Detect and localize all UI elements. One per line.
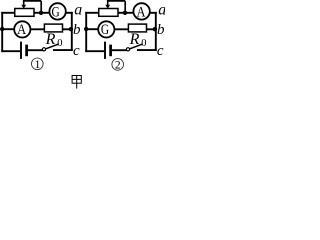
node junction dot left middle (circuit 2) bbox=[84, 27, 88, 31]
wire left vertical (circuit 2) bbox=[85, 12, 87, 52]
svg-text:G: G bbox=[52, 4, 60, 20]
ammeter A1 (circuit 1) bbox=[14, 21, 30, 37]
node b junction dot (circuit 2) bbox=[153, 27, 157, 31]
wire slider jumper horizontal (circuit 2) bbox=[107, 0, 125, 2]
svg-text:c: c bbox=[157, 43, 164, 59]
switch pivot (circuit 2) bbox=[126, 48, 129, 51]
svg-text:a: a bbox=[74, 2, 82, 19]
wire box to G (circuit 1) bbox=[34, 12, 49, 14]
wire bottom-left horizontal (circuit 2) bbox=[85, 50, 104, 52]
resistor R0 body (circuit 2) bbox=[128, 24, 146, 32]
wire slider jumper horizontal (circuit 1) bbox=[23, 0, 41, 2]
label circled 1 bbox=[32, 58, 44, 71]
svg-text:A: A bbox=[137, 4, 146, 20]
wire bottom-right horizontal (circuit 2) bbox=[137, 49, 157, 51]
galvanometer G2 (circuit 2) bbox=[98, 21, 114, 37]
svg-text:c: c bbox=[73, 43, 80, 59]
svg-text:2: 2 bbox=[115, 59, 121, 71]
galvanometer G1 (circuit 1) bbox=[49, 3, 65, 19]
rheostat R body (circuit 2) bbox=[99, 9, 118, 17]
wire bottom-right horizontal (circuit 1) bbox=[53, 49, 73, 51]
battery long plate (circuit 2) bbox=[104, 42, 106, 59]
node junction dot top (circuit 2) bbox=[123, 11, 127, 15]
wire to ammeter (circuit 1) bbox=[2, 28, 14, 30]
svg-text:R: R bbox=[129, 31, 140, 48]
wire right vertical (circuit 2) bbox=[155, 12, 157, 51]
wire G to right corner (circuit 1) bbox=[66, 12, 73, 14]
switch blade (circuit 2) bbox=[130, 44, 143, 49]
wire R0 to node b (circuit 1) bbox=[62, 28, 72, 30]
wire slider jumper riser (circuit 2) bbox=[124, 1, 126, 13]
rheostat slider arrow (circuit 2) bbox=[105, 1, 110, 9]
switch blade (circuit 1) bbox=[46, 44, 59, 49]
wire battery to switch (circuit 1) bbox=[28, 49, 43, 51]
node junction dot top (circuit 1) bbox=[39, 11, 43, 15]
wire left vertical (circuit 1) bbox=[1, 12, 3, 52]
wire top-left horizontal (circuit 2) bbox=[85, 12, 99, 14]
rheostat slider arrow (circuit 1) bbox=[21, 1, 26, 9]
svg-text:1: 1 bbox=[35, 59, 41, 71]
svg-text:a: a bbox=[158, 2, 165, 19]
svg-text:0: 0 bbox=[141, 38, 146, 49]
svg-text:A: A bbox=[17, 22, 26, 38]
label R0 (circuit 2) bbox=[129, 31, 147, 49]
caption 甲 (drawn strokes) bbox=[72, 76, 81, 89]
svg-text:G: G bbox=[101, 22, 109, 38]
svg-text:b: b bbox=[157, 22, 165, 38]
wire A to R0 (circuit 1) bbox=[30, 28, 44, 30]
wire A to right corner (circuit 2) bbox=[150, 12, 157, 14]
switch pivot (circuit 1) bbox=[42, 48, 45, 51]
svg-text:0: 0 bbox=[57, 38, 62, 49]
svg-text:b: b bbox=[73, 22, 81, 38]
wire slider jumper riser (circuit 1) bbox=[40, 1, 42, 13]
label circled 2 bbox=[112, 59, 124, 72]
wire top-left horizontal (circuit 1) bbox=[1, 12, 15, 14]
node b junction dot (circuit 1) bbox=[69, 27, 73, 31]
ammeter A2 (circuit 2) bbox=[133, 3, 149, 19]
wire right vertical (circuit 1) bbox=[71, 12, 73, 51]
wire battery to switch (circuit 2) bbox=[112, 49, 127, 51]
battery long plate (circuit 1) bbox=[20, 42, 22, 59]
wire bottom-left horizontal (circuit 1) bbox=[1, 50, 20, 52]
wire G to R0 (circuit 2) bbox=[114, 28, 129, 30]
rheostat R body (circuit 1) bbox=[15, 9, 34, 17]
node junction dot left middle (circuit 1) bbox=[0, 27, 4, 31]
wire box to A (circuit 2) bbox=[118, 12, 133, 14]
wire R0 to node b (circuit 2) bbox=[146, 28, 156, 30]
battery short plate (circuit 1) bbox=[25, 45, 28, 57]
wire to galvanometer (circuit 2) bbox=[86, 28, 98, 30]
battery short plate (circuit 2) bbox=[109, 45, 112, 57]
resistor R0 body (circuit 1) bbox=[44, 24, 62, 32]
svg-text:R: R bbox=[45, 31, 56, 48]
label R0 (circuit 1) bbox=[45, 31, 63, 49]
